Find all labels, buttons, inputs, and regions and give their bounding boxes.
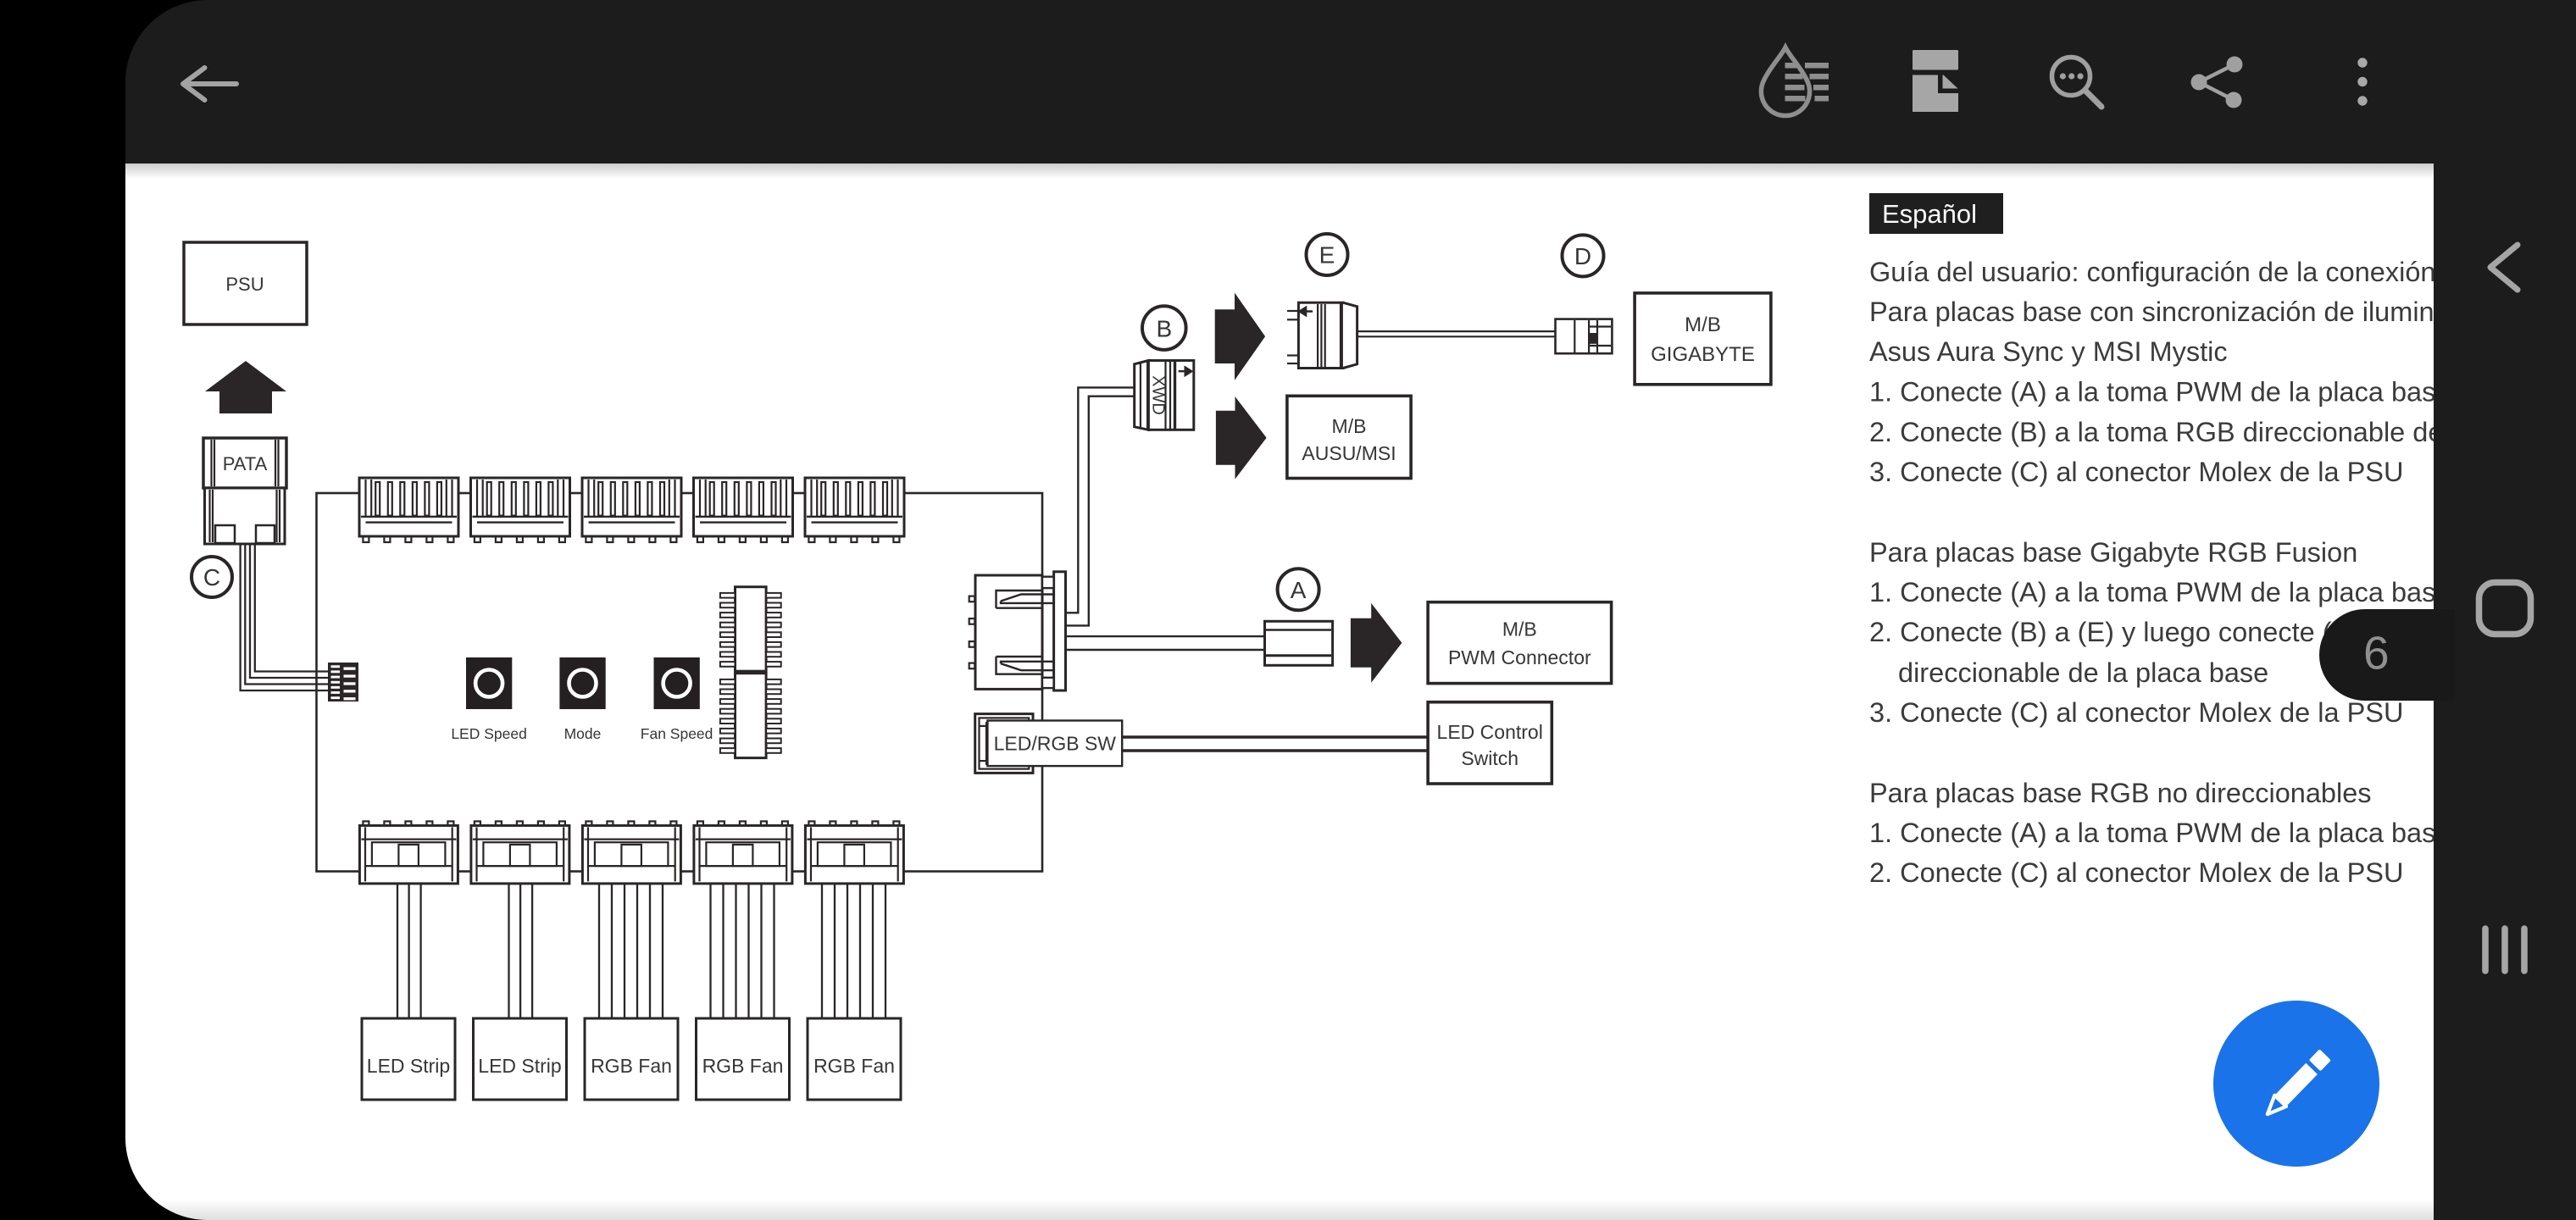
IC U2 <box>720 674 781 758</box>
M/B AUSU/MSI box <box>1287 396 1411 478</box>
node E label <box>1307 234 1348 275</box>
wire bundle to LED Strip 2 <box>509 884 533 1018</box>
arrow A <box>1351 603 1402 683</box>
fan header 5 (top) <box>805 478 904 542</box>
overflow menu toolbar icon <box>2357 58 2367 105</box>
node C label <box>192 557 232 597</box>
connector D (RGB plug) <box>1556 319 1613 354</box>
IC U1 <box>720 587 781 672</box>
Fan Speed button <box>654 657 700 709</box>
RGB Fan box 4 <box>697 1018 790 1100</box>
output connector 3 (bottom) <box>582 821 680 884</box>
wire C bundle (PATA to hub) <box>241 544 331 690</box>
output connector 2 (bottom) <box>471 821 569 884</box>
output connector 1 (bottom) <box>359 821 458 884</box>
4-pin output connector (right) <box>969 572 1066 690</box>
wires to LED Control Switch <box>1122 735 1428 739</box>
share toolbar icon <box>2191 57 2243 108</box>
LED Strip box 2 <box>474 1018 567 1100</box>
Espanol header box <box>1869 193 2003 234</box>
connector E (LED strip plug) <box>1287 311 1298 363</box>
edit FAB <box>2213 1001 2379 1167</box>
cable E to D <box>1357 330 1556 332</box>
nav: back chevron <box>2490 245 2518 290</box>
wire bundle to RGB Fan 3 <box>599 884 663 1018</box>
PSU box <box>184 242 307 324</box>
PATA power input header <box>328 663 358 701</box>
node B label <box>1142 306 1186 350</box>
arrow glyph in B <box>1179 368 1192 375</box>
page-view toolbar icon <box>1913 50 1958 112</box>
LED Speed button <box>466 657 512 709</box>
node A label <box>1278 568 1319 610</box>
white document page <box>125 164 2434 1220</box>
wire to B (2) <box>1066 396 1135 626</box>
RGB Fan box 5 <box>808 1018 901 1100</box>
output connector 4 (bottom) <box>694 821 792 884</box>
hub PCB outline <box>317 493 1043 872</box>
M/B GIGABYTE box <box>1635 293 1771 385</box>
terminal latch top <box>997 591 1053 608</box>
terminal latch bottom <box>997 657 1053 674</box>
LED/RGB SW label box <box>987 721 1122 767</box>
fan header 1 (top) <box>359 478 458 542</box>
LED Strip box 1 <box>362 1018 455 1100</box>
RGB Fan box 3 <box>585 1018 678 1100</box>
wire bundle to RGB Fan 4 <box>711 884 774 1018</box>
LED/RGB SW connector <box>975 714 1033 774</box>
wire bundle to RGB Fan 5 <box>822 884 885 1018</box>
wire pair to A <box>1066 635 1265 637</box>
LED Control Switch box <box>1428 702 1552 784</box>
arrow B (to E) <box>1215 293 1265 380</box>
connector B (XWD 3-pin) <box>1135 361 1194 430</box>
nav: recents button <box>2485 929 2524 971</box>
wire to B (1) <box>1066 387 1135 613</box>
FAB pencil icon <box>2262 1049 2331 1120</box>
wiring diagram <box>125 164 2434 1220</box>
fan header 4 (top) <box>694 478 793 542</box>
search toolbar icon <box>2052 58 2102 108</box>
PATA connector <box>203 438 286 544</box>
ink/drop toolbar icon <box>1761 47 1829 116</box>
user guide text (Spanish) <box>1869 257 2503 888</box>
fan header 3 (top) <box>582 478 681 542</box>
arrow to PSU <box>205 361 286 413</box>
M/B PWM Connector box <box>1428 602 1612 684</box>
wire bundle to LED Strip 1 <box>397 884 421 1018</box>
node D label <box>1563 235 1604 276</box>
arrow to AUSU/MSI <box>1216 396 1267 480</box>
back arrow (toolbar) <box>183 68 236 100</box>
fan header 2 (top) <box>471 478 570 542</box>
output connector 5 (bottom) <box>805 821 903 884</box>
arrow glyph in E <box>1300 308 1313 315</box>
connector A (PWM plug) <box>1265 621 1333 665</box>
Mode button <box>559 657 605 709</box>
page number pill 6 <box>2319 609 2455 701</box>
nav: home button <box>2479 583 2531 635</box>
